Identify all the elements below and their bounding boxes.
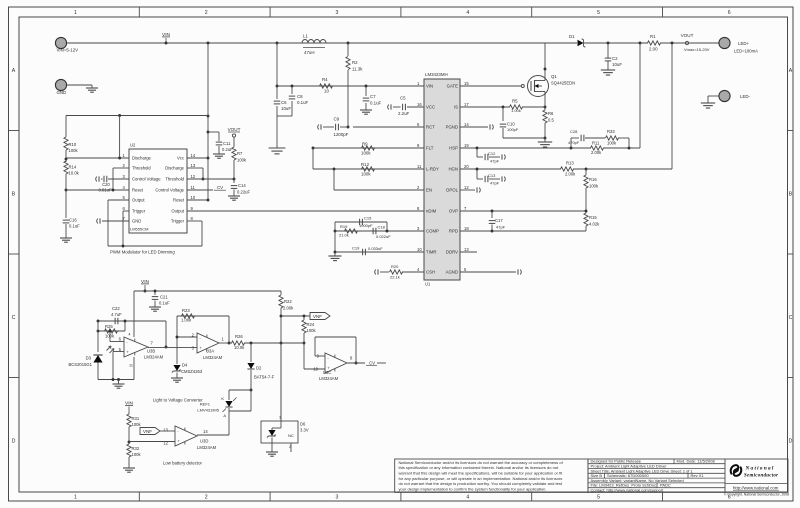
svg-text:22.1k: 22.1k (390, 275, 400, 280)
svg-text:U3B: U3B (147, 349, 155, 354)
svg-text:1.00k: 1.00k (511, 108, 521, 113)
svg-text:R32: R32 (132, 446, 140, 451)
svg-text:100k: 100k (361, 172, 371, 177)
svg-text:R1: R1 (650, 34, 656, 39)
svg-text:C8: C8 (297, 94, 303, 99)
svg-text:A: A (789, 68, 793, 74)
svg-text:U3D: U3D (200, 439, 208, 444)
svg-text:10.0k: 10.0k (69, 171, 80, 176)
svg-text:R33: R33 (607, 129, 615, 134)
svg-text:Mod. Date: 11/5/2008: Mod. Date: 11/5/2008 (677, 459, 716, 464)
svg-text:EN: EN (426, 188, 432, 193)
svg-text:VIN: VIN (426, 84, 433, 89)
svg-text:Control Voltage: Control Voltage (155, 188, 184, 193)
svg-text:GATE: GATE (447, 84, 459, 89)
svg-text:CV: CV (217, 185, 223, 190)
svg-text:Light to Voltage Converter: Light to Voltage Converter (153, 398, 203, 403)
svg-text:Rev X1: Rev X1 (691, 473, 705, 478)
svg-text:Low battery detector: Low battery detector (163, 461, 203, 466)
svg-text:C18: C18 (378, 225, 386, 230)
svg-text:C11: C11 (223, 141, 231, 146)
svg-text:B: B (12, 191, 16, 197)
svg-text:R12: R12 (361, 162, 370, 167)
svg-text:CV: CV (369, 361, 375, 366)
svg-text:C9: C9 (334, 117, 340, 122)
svg-text:R31: R31 (132, 416, 140, 421)
svg-text:R4: R4 (322, 77, 328, 82)
svg-text:2: 2 (205, 494, 208, 500)
svg-text:RCT: RCT (426, 125, 435, 130)
svg-text:C14: C14 (238, 183, 246, 188)
svg-text:0.1uF: 0.1uF (69, 224, 80, 229)
svg-text:470pF: 470pF (568, 140, 580, 145)
svg-text:DDRV: DDRV (446, 250, 458, 255)
svg-text:COMP: COMP (426, 229, 439, 234)
svg-text:HSP: HSP (449, 146, 458, 151)
svg-text:BAT54-7-F: BAT54-7-F (254, 375, 275, 380)
svg-text:4.02k: 4.02k (589, 222, 600, 227)
svg-text:Trigger: Trigger (171, 219, 185, 224)
svg-text:R24: R24 (307, 322, 315, 327)
svg-text:D6: D6 (300, 422, 306, 427)
svg-text:VCC: VCC (426, 105, 435, 110)
svg-text:C7: C7 (370, 94, 376, 99)
svg-text:Discharge: Discharge (165, 166, 185, 171)
svg-text:TIMR: TIMR (426, 250, 437, 255)
svg-text:0.2uF: 0.2uF (222, 147, 233, 152)
svg-text:Trigger: Trigger (132, 209, 146, 214)
svg-text:+: + (199, 346, 202, 351)
svg-text:Discharge: Discharge (132, 156, 152, 161)
svg-text:R23: R23 (182, 308, 190, 313)
svg-text:100pF: 100pF (507, 127, 519, 132)
svg-text:10: 10 (313, 367, 318, 372)
svg-text:2.00k: 2.00k (591, 150, 602, 155)
svg-text:100k: 100k (361, 151, 371, 156)
svg-text:2.00: 2.00 (649, 47, 658, 52)
svg-text:VIN=5-12V: VIN=5-12V (57, 48, 79, 53)
svg-text:Control Voltage: Control Voltage (132, 177, 161, 182)
svg-text:Threshold: Threshold (132, 166, 151, 171)
svg-text:3: 3 (336, 10, 339, 16)
svg-text:C2: C2 (612, 56, 618, 61)
svg-text:LM555CM: LM555CM (130, 227, 148, 232)
svg-text:CMSZ4263: CMSZ4263 (181, 369, 203, 374)
svg-text:0.1uF: 0.1uF (159, 301, 170, 306)
svg-text:11: 11 (417, 164, 422, 169)
svg-text:100k: 100k (607, 141, 617, 146)
svg-text:3.3V: 3.3V (300, 428, 309, 433)
svg-text:100k: 100k (307, 328, 317, 333)
svg-text:14: 14 (464, 122, 469, 127)
svg-text:10uF: 10uF (281, 106, 291, 111)
svg-text:10: 10 (417, 247, 422, 252)
svg-text:National Semiconductor and/or: National Semiconductor and/or its licens… (399, 460, 564, 465)
svg-text:U3A: U3A (206, 349, 214, 354)
svg-text:47pF: 47pF (496, 225, 506, 230)
svg-text:47pF: 47pF (490, 181, 500, 186)
svg-text:R15: R15 (589, 215, 597, 220)
svg-text:12: 12 (464, 185, 469, 190)
svg-text:K: K (221, 396, 224, 401)
svg-text:15: 15 (464, 81, 469, 86)
svg-text:D: D (12, 438, 16, 444)
svg-text:19: 19 (464, 143, 469, 148)
svg-text:11: 11 (129, 364, 133, 368)
svg-text:HGN: HGN (448, 167, 458, 172)
svg-text:0.22uF: 0.22uF (237, 190, 250, 195)
svg-text:A: A (223, 413, 226, 418)
svg-text:0.5: 0.5 (548, 118, 554, 123)
svg-text:R22: R22 (284, 299, 292, 304)
svg-text:11: 11 (191, 185, 196, 190)
svg-text:LM3423MH: LM3423MH (425, 72, 448, 77)
svg-text:10: 10 (324, 89, 329, 94)
svg-text:1: 1 (279, 416, 281, 420)
svg-text:A: A (12, 68, 16, 74)
svg-text:this specification or any info: this specification or any information co… (399, 465, 560, 470)
svg-text:10.0k: 10.0k (234, 345, 245, 350)
svg-text:C15: C15 (364, 216, 372, 221)
svg-text:5: 5 (597, 10, 600, 16)
svg-text:LED-: LED- (740, 94, 751, 99)
svg-text:PWM Modulator for LED Dimming: PWM Modulator for LED Dimming (110, 250, 175, 255)
svg-text:0.01uF: 0.01uF (98, 188, 111, 193)
svg-text:RPD: RPD (449, 229, 458, 234)
svg-text:http://www.national.com: http://www.national.com (733, 486, 779, 491)
svg-text:0.033uF: 0.033uF (368, 246, 383, 251)
svg-text:U1: U1 (425, 282, 431, 287)
svg-text:4.7uF: 4.7uF (111, 312, 122, 317)
svg-text:R16: R16 (589, 177, 597, 182)
svg-text:12: 12 (191, 174, 196, 179)
svg-text:R19: R19 (340, 224, 348, 229)
svg-text:National: National (745, 466, 775, 472)
svg-text:R2: R2 (352, 60, 358, 65)
svg-text:C28: C28 (570, 129, 578, 134)
svg-text:100k: 100k (237, 158, 247, 163)
svg-text:L1: L1 (303, 34, 308, 39)
svg-text:4: 4 (128, 333, 130, 337)
svg-text:11.3k: 11.3k (352, 67, 363, 72)
svg-text:C: C (789, 315, 793, 321)
svg-text:17: 17 (464, 102, 469, 107)
svg-text:LM324AM: LM324AM (319, 376, 339, 381)
svg-text:1200pF: 1200pF (334, 132, 349, 137)
svg-text:100k: 100k (132, 422, 142, 427)
svg-text:21.0k: 21.0k (339, 233, 349, 238)
svg-text:47uH: 47uH (304, 50, 315, 55)
svg-text:D1: D1 (569, 34, 575, 39)
svg-text:20: 20 (464, 164, 469, 169)
svg-text:4: 4 (466, 10, 469, 16)
svg-text:13: 13 (464, 247, 469, 252)
svg-text:R5: R5 (512, 99, 518, 104)
svg-text:1.00k: 1.00k (181, 318, 192, 323)
svg-text:C20: C20 (102, 182, 110, 187)
svg-text:R9: R9 (362, 142, 368, 147)
svg-text:+: + (126, 350, 129, 355)
svg-text:Output: Output (132, 198, 145, 203)
svg-text:Vmax=15-20V: Vmax=15-20V (684, 47, 710, 52)
svg-text:LED+: LED+ (738, 41, 750, 46)
svg-text:B: B (789, 191, 793, 197)
svg-text:R10: R10 (69, 142, 77, 147)
svg-text:C21: C21 (160, 295, 168, 300)
svg-text:VNF: VNF (143, 429, 152, 434)
svg-text:for any particular purpose, or: for any particular purpose, or will oper… (399, 476, 563, 481)
svg-text:LM324AM: LM324AM (203, 355, 223, 360)
svg-text:SQ4425EDN: SQ4425EDN (551, 81, 575, 86)
svg-text:R25: R25 (105, 324, 113, 329)
svg-text:D2: D2 (256, 366, 262, 371)
svg-text:R6: R6 (548, 111, 554, 116)
svg-text:+: + (177, 439, 180, 444)
svg-text:Contact: http://www.national.c: Contact: http://www.national.com/support (591, 488, 665, 493)
svg-text:LM324AM: LM324AM (144, 355, 164, 360)
svg-text:C17: C17 (495, 218, 503, 223)
svg-text:LM324AM: LM324AM (197, 445, 217, 450)
svg-text:6: 6 (728, 10, 731, 16)
svg-text:OVP: OVP (449, 209, 458, 214)
svg-text:1: 1 (74, 10, 77, 16)
svg-text:R7: R7 (237, 151, 243, 156)
svg-text:R14: R14 (69, 165, 77, 170)
svg-text:1: 1 (74, 494, 77, 500)
svg-text:Q1: Q1 (551, 74, 557, 79)
svg-text:D: D (789, 438, 793, 444)
svg-text:Reset: Reset (173, 198, 185, 203)
svg-text:BCS2015G1: BCS2015G1 (68, 362, 92, 367)
svg-text:R13: R13 (566, 161, 574, 166)
svg-text:nDIM: nDIM (426, 209, 437, 214)
svg-text:100k: 100k (589, 184, 599, 189)
svg-text:C10: C10 (507, 122, 515, 127)
svg-text:C: C (12, 315, 16, 321)
svg-text:C6: C6 (281, 100, 287, 105)
svg-text:100k: 100k (132, 452, 142, 457)
svg-text:C5: C5 (400, 96, 406, 101)
svg-text:3: 3 (336, 494, 339, 500)
svg-text:PGND: PGND (446, 125, 458, 130)
svg-text:0.1uF: 0.1uF (370, 101, 382, 106)
svg-text:2: 2 (205, 10, 208, 16)
svg-text:D4: D4 (182, 363, 188, 368)
svg-text:2.2uF: 2.2uF (398, 111, 410, 116)
svg-text:VOUT: VOUT (681, 33, 694, 38)
svg-text:FLT: FLT (426, 146, 434, 151)
svg-text:C19: C19 (352, 246, 360, 251)
svg-text:R26: R26 (235, 334, 243, 339)
svg-text:IS: IS (454, 105, 458, 110)
svg-text:U2: U2 (130, 143, 136, 148)
svg-text:13: 13 (191, 163, 196, 168)
svg-text:VNF: VNF (313, 314, 322, 319)
svg-text:10: 10 (191, 195, 196, 200)
svg-text:Threshold: Threshold (165, 177, 184, 182)
svg-text:18: 18 (464, 226, 469, 231)
svg-text:© Copyright, National Semicond: © Copyright, National Semiconductor, 200… (724, 492, 789, 496)
svg-text:1000pF: 1000pF (359, 223, 373, 228)
svg-text:AGND: AGND (446, 270, 458, 275)
svg-text:D3: D3 (86, 356, 92, 361)
svg-text:U3C: U3C (323, 370, 331, 375)
svg-text:CSH: CSH (426, 270, 435, 275)
svg-text:C13: C13 (488, 173, 496, 178)
svg-text:47pF: 47pF (490, 159, 500, 164)
svg-text:2: 2 (289, 445, 291, 449)
svg-text:your design implementation to: your design implementation to confirm th… (399, 487, 547, 492)
svg-text:Output: Output (171, 209, 184, 214)
svg-text:NC: NC (288, 433, 294, 438)
svg-text:10uF: 10uF (612, 62, 622, 67)
svg-text:13: 13 (163, 428, 168, 433)
svg-text:4: 4 (466, 494, 469, 500)
svg-text:Vcc: Vcc (177, 156, 184, 161)
svg-text:GND: GND (57, 90, 67, 95)
svg-text:warrant that this design will: warrant that this design will meet the s… (399, 471, 564, 476)
svg-text:VOUT: VOUT (228, 127, 241, 132)
svg-text:LMV431IM5: LMV431IM5 (197, 408, 219, 413)
svg-text:DPOL: DPOL (446, 188, 458, 193)
svg-text:14: 14 (203, 429, 208, 434)
svg-text:L-RDY: L-RDY (426, 167, 439, 172)
svg-text:C12: C12 (488, 151, 496, 156)
svg-text:R11: R11 (592, 141, 600, 146)
svg-text:0.022uF: 0.022uF (376, 234, 391, 239)
svg-text:100k: 100k (69, 148, 79, 153)
svg-text:2.00k: 2.00k (565, 172, 576, 177)
svg-text:C16: C16 (69, 218, 77, 223)
svg-text:14: 14 (191, 153, 196, 158)
svg-text:16: 16 (417, 102, 422, 107)
svg-text:2.00k: 2.00k (283, 306, 294, 311)
svg-text:do not warrant that the design: do not warrant that the design is produc… (399, 481, 563, 486)
svg-text:Reset: Reset (132, 188, 144, 193)
svg-text:5: 5 (597, 494, 600, 500)
svg-text:LED=100mA: LED=100mA (734, 49, 758, 54)
svg-text:R20: R20 (391, 264, 399, 269)
svg-text:0.1uF: 0.1uF (297, 100, 309, 105)
svg-text:C22: C22 (112, 306, 120, 311)
svg-text:GND: GND (132, 219, 141, 224)
svg-text:Semiconductor: Semiconductor (744, 474, 778, 479)
